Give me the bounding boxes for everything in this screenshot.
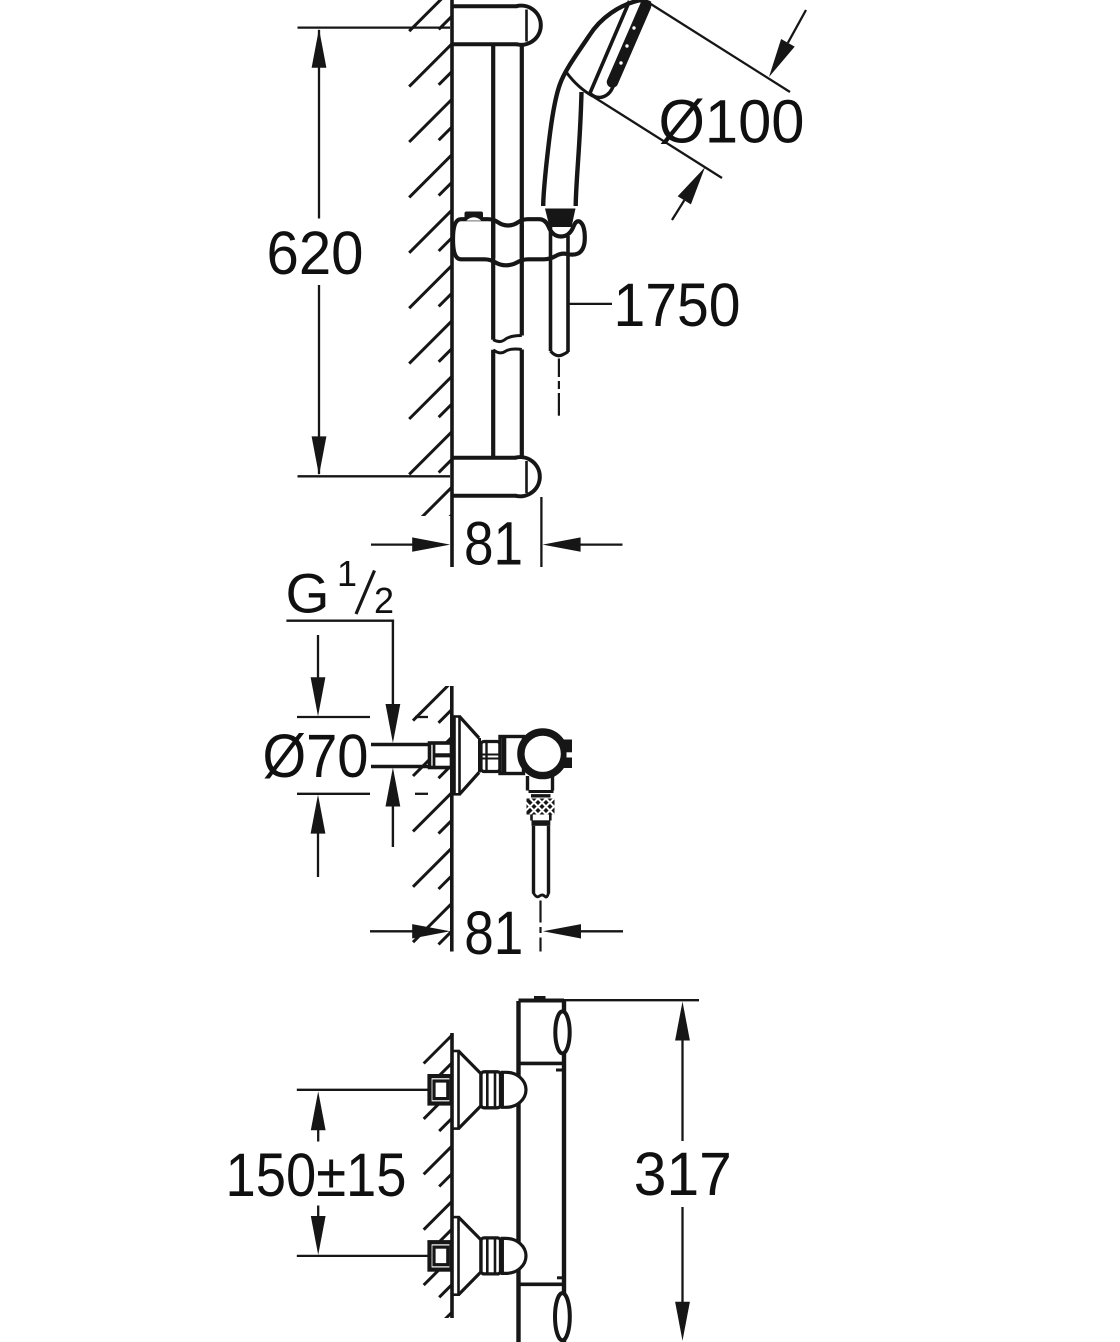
dimension Ø70 extension lines — [297, 716, 370, 718]
shower hose (top view) — [549, 227, 553, 351]
wall line (middle view) — [450, 686, 454, 952]
spray face bottom cap — [590, 85, 614, 97]
body joint line lower — [520, 1283, 564, 1287]
extension line bottom (rail lower bracket centre) — [298, 475, 451, 477]
hose coupling nut (cross-hatched) — [527, 799, 555, 815]
extension line top (rail upper bracket centre) — [298, 26, 451, 28]
hand shower spray face dark band — [613, 6, 646, 82]
dimension Ø100 extension line upper — [650, 4, 790, 93]
dimension 317 line + arrows — [675, 1002, 690, 1041]
hose centreline (dash-dot) — [558, 359, 560, 378]
hand shower head top cap — [639, 1, 651, 4]
lower union dome — [502, 1238, 526, 1273]
wall hatch (middle view) — [413, 682, 452, 945]
dimension 150±15 arrow down — [317, 1206, 319, 1218]
upper knob (oval) — [555, 1011, 569, 1053]
leader 1750 — [568, 303, 612, 305]
valve body (middle) — [521, 732, 565, 776]
hose ferrule — [530, 815, 533, 821]
hand shower neck joint line — [567, 73, 594, 97]
hand shower head outer edge — [543, 1, 638, 207]
upper wall union nut — [430, 1076, 452, 1103]
dimension 620 line — [318, 30, 320, 219]
upper escutcheon — [453, 1051, 459, 1129]
dimension 150±15 arrow up — [311, 1091, 326, 1130]
svg-text:317: 317 — [634, 1140, 732, 1208]
thermostat body — [516, 1001, 520, 1342]
dimension 81 (top) left arrow — [371, 543, 414, 545]
spray face speckles — [632, 26, 635, 29]
slider holder body — [453, 219, 585, 265]
svg-text:Ø100: Ø100 — [659, 88, 805, 156]
temperature knob tabs — [561, 740, 572, 769]
svg-text:Ø70: Ø70 — [263, 722, 369, 790]
upper union: centreline/extension 150 dim — [297, 1089, 429, 1091]
svg-text:81: 81 — [464, 510, 523, 578]
wall hatch (bottom view) — [424, 1035, 453, 1341]
rail break symbol — [493, 336, 522, 342]
upper union dome — [502, 1072, 526, 1107]
extension line (ball end, 81 top) — [540, 497, 542, 567]
hex nut (middle) — [481, 742, 500, 772]
lower knob (oval) — [555, 1293, 570, 1340]
svg-text:150±15: 150±15 — [226, 1141, 407, 1209]
Ø70 arrow upper (pointing down) — [317, 635, 319, 680]
slider lock tab — [465, 212, 484, 221]
dimension Ø100 extension line lower — [593, 97, 722, 179]
valve outlet stub — [526, 776, 529, 791]
G 1/2 arrow down to pipe — [386, 704, 401, 743]
escutcheon (middle) — [455, 717, 460, 795]
G 1/2 opposing arrow up — [386, 768, 401, 807]
dimension 81 (middle) left arrow — [370, 930, 413, 932]
wall line (top view) — [450, 0, 454, 567]
wall hatch (top view) — [409, 0, 452, 530]
rail upper wall bracket — [516, 6, 540, 45]
hose (middle view) — [532, 826, 535, 894]
hand shower hose nut (dark) — [545, 209, 576, 228]
upper hex nut — [481, 1072, 501, 1108]
svg-text:1750: 1750 — [614, 271, 741, 339]
svg-text:1: 1 — [337, 553, 357, 594]
inlet pipe stub G1/2 — [371, 743, 429, 746]
body joint line upper — [519, 1062, 565, 1066]
svg-text:2: 2 — [374, 580, 394, 621]
dimension 620 arrow down — [312, 436, 327, 475]
wall union nut (middle) — [430, 743, 452, 768]
svg-text:81: 81 — [464, 899, 523, 967]
svg-text:G: G — [286, 562, 330, 625]
shower rail (vertical bar) — [491, 45, 495, 340]
Ø100 arrow lower — [672, 200, 684, 220]
lower union: centreline/extension 150 dim — [297, 1255, 429, 1257]
Ø100 arrow upper — [788, 10, 806, 43]
cap button — [534, 996, 546, 999]
dimension 620 arrow up — [312, 29, 327, 68]
hand shower spray face inner line — [590, 1, 630, 93]
dimension 317 extension line — [564, 999, 699, 1001]
lower hex nut — [481, 1238, 501, 1274]
rail lines through holder — [491, 222, 495, 258]
wall line (bottom view) — [450, 1033, 454, 1318]
dimension 81 (top) right arrow — [580, 543, 623, 545]
lower escutcheon — [453, 1217, 459, 1295]
hand shower handle right edge — [576, 92, 582, 206]
lower wall union nut — [430, 1242, 452, 1269]
rail lower wall bracket — [515, 457, 539, 496]
svg-text:620: 620 — [267, 219, 364, 287]
Ø70 arrow lower (pointing up) — [311, 795, 326, 834]
dimension 81 (middle) right arrow — [581, 930, 623, 932]
union block (middle) — [500, 737, 524, 774]
hose centreline (middle, dash-dot) — [539, 901, 541, 923]
G 1/2 leader line — [286, 620, 394, 622]
